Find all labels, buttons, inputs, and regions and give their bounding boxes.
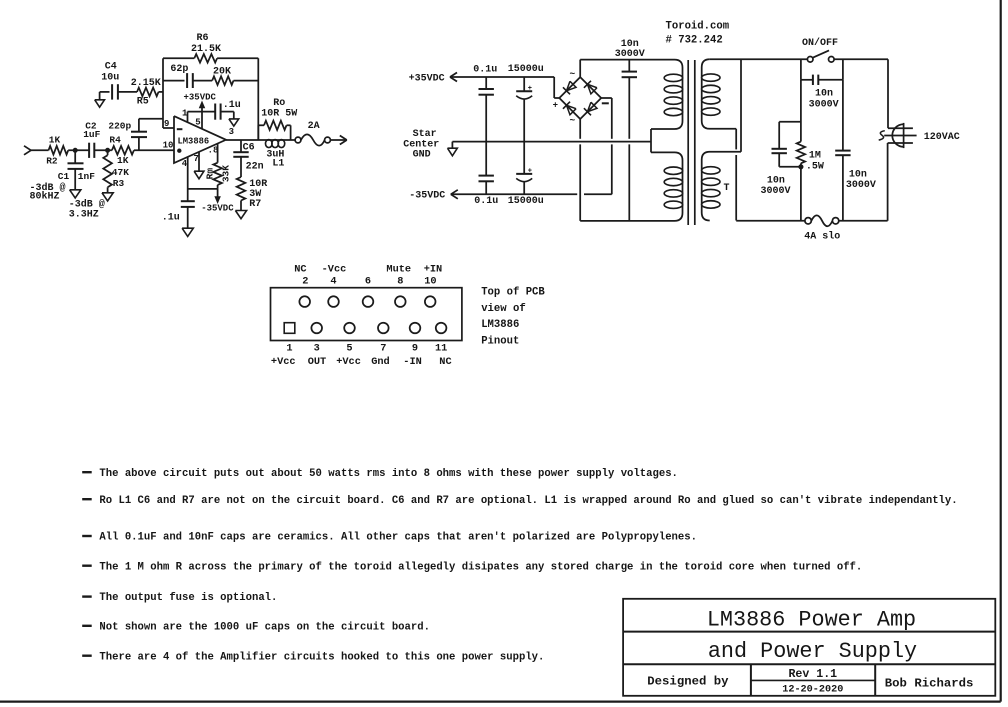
svg-text:Bob Richards: Bob Richards: [885, 676, 974, 690]
primary bottom wire to fuse: [736, 220, 805, 222]
svg-text:33K: 33K: [220, 165, 231, 182]
svg-text:15000u: 15000u: [508, 196, 544, 207]
svg-text:4A slo: 4A slo: [804, 231, 840, 243]
svg-text:1nF: 1nF: [78, 171, 95, 182]
-35VDC arrow at mute: [217, 189, 219, 197]
svg-text:LM3886 Power Amp: LM3886 Power Amp: [707, 607, 916, 632]
-35VDC rail wire with hop: [451, 193, 577, 195]
svg-text:62p: 62p: [170, 64, 188, 75]
bridge diode D3 top-right: [587, 84, 597, 94]
svg-text:1uF: 1uF: [83, 129, 100, 140]
svg-text:9: 9: [412, 343, 418, 355]
svg-text:1M: 1M: [809, 150, 821, 161]
note 6 dash: [82, 625, 92, 627]
+35VDC rail wire: [450, 76, 554, 78]
ground below R3: [102, 193, 113, 201]
primary top wire to switch: [710, 58, 808, 60]
capacitor 15000u lower: [523, 142, 525, 174]
svg-text:Mute: Mute: [386, 263, 411, 275]
svg-text:LM3886: LM3886: [178, 136, 210, 146]
output wire: [226, 139, 295, 141]
input terminal arrow: [24, 150, 31, 155]
svg-text:6: 6: [365, 276, 371, 288]
svg-text:1: 1: [286, 343, 292, 355]
svg-text:1K: 1K: [117, 155, 129, 166]
title block vertical dividers: [750, 664, 752, 696]
svg-text:+35VDC: +35VDC: [409, 73, 445, 84]
transformer core: [687, 60, 689, 225]
wire input to R2: [31, 149, 49, 151]
svg-text:Pinout: Pinout: [481, 335, 519, 347]
resistor Rm 33K: [213, 163, 222, 185]
svg-text:80kHZ: 80kHZ: [30, 191, 60, 203]
transformer primary upper winding: [702, 59, 737, 129]
svg-text:Gnd: Gnd: [371, 356, 390, 368]
+35VDC supply arrow: [201, 104, 203, 112]
GND rail wire: [452, 141, 651, 143]
pin 3 pad: [311, 323, 322, 334]
svg-text:10n: 10n: [815, 88, 833, 99]
note 2 dash: [82, 498, 92, 500]
svg-text:Ro: Ro: [273, 98, 285, 109]
capacitor .1u at V+: [214, 104, 216, 120]
note 5 dash: [82, 595, 92, 597]
svg-text:10: 10: [163, 141, 174, 151]
capacitor C2 1uF: [88, 143, 90, 158]
LM3886 pinout box: [271, 288, 462, 341]
node A junction dot: [73, 148, 77, 152]
ground below .1u: [182, 228, 193, 236]
capacitor C6 22n: [240, 140, 242, 152]
note 4 dash: [82, 565, 92, 567]
wire +35 rail to bridge + corner: [553, 77, 555, 98]
bridge diode D1 top-left: [566, 81, 576, 91]
svg-text:LM3886: LM3886: [481, 319, 519, 331]
page border bottom: [0, 700, 1001, 702]
title block middle divider: [751, 679, 875, 681]
vertical 1M branch wire: [800, 80, 802, 142]
svg-text:GND: GND: [413, 150, 431, 161]
svg-text:Rm: Rm: [204, 168, 215, 180]
svg-text:-Vcc: -Vcc: [322, 263, 347, 275]
svg-text:Top of PCB: Top of PCB: [481, 286, 545, 298]
svg-text:3000V: 3000V: [846, 180, 876, 191]
svg-text:Toroid.com: Toroid.com: [666, 21, 730, 33]
svg-text:0.1u: 0.1u: [473, 65, 497, 76]
svg-text:11: 11: [435, 343, 447, 355]
note 3 dash: [82, 535, 92, 537]
title block row line 1: [623, 631, 995, 633]
svg-text:The above circuit puts out abo: The above circuit puts out about 50 watt…: [99, 468, 678, 480]
svg-text:R7: R7: [249, 199, 261, 210]
capacitor C1 1nF: [74, 150, 76, 163]
ground at C4: [99, 92, 101, 100]
svg-text:120VAC: 120VAC: [924, 132, 960, 143]
junction dot below 1M: [799, 165, 803, 169]
svg-text:10R 5W: 10R 5W: [261, 109, 297, 120]
pin 5 stub and label: [201, 112, 203, 129]
AC plug 120VAC: [892, 124, 903, 147]
title block row line 2: [623, 663, 995, 665]
svg-text:5: 5: [195, 117, 200, 127]
svg-text:Rev 1.1: Rev 1.1: [788, 668, 837, 681]
pin 11 pad: [436, 323, 447, 334]
op-amp U1 LM3886 triangle: [174, 116, 226, 163]
primary parallel jumper with hop: [735, 129, 737, 150]
transformer secondary lower winding: [651, 152, 683, 221]
svg-text:C6: C6: [243, 143, 255, 154]
svg-text:3: 3: [229, 127, 234, 137]
pin 2 pad: [299, 296, 310, 307]
svg-text:R5: R5: [137, 96, 149, 107]
svg-text:Designed by: Designed by: [647, 674, 729, 688]
svg-text:220p: 220p: [108, 120, 131, 131]
svg-text:# 732.242: # 732.242: [666, 34, 723, 46]
long vertical top wire to lower primary: [740, 59, 742, 152]
svg-text:NC: NC: [294, 263, 306, 275]
wire fuse to right rail: [839, 220, 888, 222]
svg-text:R6: R6: [197, 33, 209, 44]
resistor R2 1K: [49, 146, 69, 155]
wire bridge top corner to secondary top: [579, 60, 581, 78]
svg-text:-35VDC: -35VDC: [409, 191, 445, 202]
svg-text:R4: R4: [109, 134, 121, 145]
wire R4 to op-amp pin 10: [134, 149, 174, 151]
svg-text:.8: .8: [208, 145, 219, 155]
pin 5 pad: [344, 323, 355, 334]
svg-text:1K: 1K: [49, 134, 61, 145]
pin 10 pad: [425, 296, 436, 307]
svg-text:The output fuse is optional.: The output fuse is optional.: [99, 592, 277, 604]
V+ supply wire pins 1,5: [188, 111, 216, 113]
wire bridge bottom corner down with hop: [579, 119, 581, 139]
svg-text:10: 10: [424, 276, 436, 288]
svg-text:22n: 22n: [246, 161, 264, 172]
pin 8 mute stub: [217, 144, 219, 163]
svg-text:3000V: 3000V: [809, 100, 839, 111]
wire bridge - corner to -35 rail: [601, 97, 612, 99]
wire switch to right rail: [834, 58, 888, 60]
svg-text:OUT: OUT: [308, 356, 327, 368]
pin 1 square pad: [284, 323, 295, 334]
capacitor 0.1u lower: [485, 142, 487, 176]
svg-text:7: 7: [194, 154, 199, 164]
pin 8 pad: [395, 296, 406, 307]
capacitor 220p across inputs: [138, 137, 140, 150]
svg-text:47K: 47K: [112, 167, 129, 178]
svg-text:1: 1: [182, 109, 188, 119]
bridge rectifier diamond: [559, 77, 580, 98]
pin 9 inverting input stub: [163, 127, 174, 129]
svg-text:ON/OFF: ON/OFF: [802, 37, 838, 49]
svg-text:view of: view of: [481, 303, 526, 315]
feedback top wire: [163, 57, 194, 59]
right rail to plug: [887, 59, 889, 128]
svg-text:5: 5: [346, 343, 352, 355]
transformer primary lower winding: [702, 152, 741, 221]
fuse 2A: [295, 137, 301, 143]
second feedback wire with 62p: [163, 80, 185, 82]
svg-text:4: 4: [330, 276, 336, 288]
svg-text:15000u: 15000u: [508, 64, 544, 75]
svg-text:4: 4: [182, 159, 188, 169]
svg-text:L1: L1: [272, 158, 284, 169]
+35VDC rail arrow: [450, 73, 457, 78]
capacitor .1u at V-: [181, 200, 195, 202]
resistor R3 47K: [107, 150, 109, 155]
capacitor 62p: [186, 73, 188, 88]
svg-text:3.3HZ: 3.3HZ: [69, 209, 99, 220]
node B junction dot: [106, 148, 110, 152]
ground at pin 7: [194, 171, 204, 179]
svg-text:3000V: 3000V: [761, 186, 791, 197]
svg-text:Not shown are the 1000 uF caps: Not shown are the 1000 uF caps on the ci…: [99, 621, 430, 633]
note 1 dash: [82, 471, 92, 473]
pin 7 stub: [198, 152, 200, 171]
svg-text:8: 8: [397, 276, 403, 288]
svg-text:.1u: .1u: [162, 212, 180, 223]
bridge diode D4 bottom-right: [587, 102, 597, 112]
capacitor 10n 3000V right: [842, 155, 844, 221]
pin 9 pad: [410, 323, 421, 334]
svg-text:21.5K: 21.5K: [191, 44, 221, 55]
svg-text:20K: 20K: [213, 67, 231, 78]
inductor L1 3uH: [266, 140, 273, 148]
svg-text:C1: C1: [58, 171, 70, 182]
svg-text:7: 7: [380, 343, 386, 355]
svg-text:C4: C4: [105, 61, 117, 72]
resistor 20K: [212, 76, 233, 85]
wire R2 to node A: [68, 149, 89, 151]
title block outer box: [623, 599, 995, 696]
svg-text:~: ~: [570, 115, 576, 126]
resistor R7 10R 3W: [237, 177, 246, 201]
svg-text:T: T: [724, 183, 730, 194]
output arrow: [330, 139, 345, 141]
pin 7 pad: [378, 323, 389, 334]
wire C4 to R5: [118, 91, 137, 93]
svg-text:3000V: 3000V: [615, 49, 645, 60]
svg-text:The 1 M ohm R across the prima: The 1 M ohm R across the primary of the …: [99, 561, 862, 573]
svg-text:There are 4 of the Amplifier c: There are 4 of the Amplifier circuits ho…: [99, 651, 544, 663]
svg-text:+: +: [553, 100, 558, 110]
svg-text:3: 3: [314, 343, 320, 355]
ground symbol at star center: [451, 142, 453, 149]
svg-text:and Power Supply: and Power Supply: [708, 639, 917, 664]
svg-text:All 0.1uF and 10nF caps are ce: All 0.1uF and 10nF caps are ceramics. Al…: [99, 532, 697, 544]
svg-text:~: ~: [570, 69, 576, 80]
resistor 1M .5W: [797, 142, 805, 164]
resistor R4 1K: [112, 146, 134, 155]
svg-text:+: +: [528, 167, 532, 175]
resistor R6 21.5K: [194, 54, 217, 63]
note 7 dash: [82, 655, 92, 657]
wire and ground at V+ bypass: [221, 111, 234, 113]
capacitor 10n 3000V parallel 1M: [779, 121, 801, 123]
svg-text:2A: 2A: [308, 121, 320, 132]
svg-text:9: 9: [164, 119, 169, 129]
svg-text:R3: R3: [113, 178, 125, 189]
svg-text:-IN: -IN: [403, 356, 422, 368]
secondary bottom wire: [580, 220, 674, 222]
svg-text:+Vcc: +Vcc: [271, 356, 296, 368]
transformer secondary upper winding: [651, 60, 683, 129]
pin 1 stub and label: [187, 112, 189, 123]
svg-text:+35VDC: +35VDC: [184, 93, 217, 103]
wire 1M branch to bottom wire: [800, 163, 802, 221]
switch ON/OFF: [807, 57, 813, 63]
resistor R5 2.15K: [137, 88, 159, 97]
-35VDC rail arrow: [451, 190, 458, 195]
transformer center tap: [650, 129, 652, 152]
capacitor C4 10u: [100, 91, 110, 93]
svg-text:2.15K: 2.15K: [131, 78, 161, 89]
svg-text:Ro L1 C6 and R7 are not on the: Ro L1 C6 and R7 are not on the circuit b…: [99, 495, 957, 507]
svg-text:2: 2: [302, 276, 308, 288]
ground below R7: [235, 211, 246, 219]
fuse 4A slo: [805, 218, 811, 224]
svg-text:+Vcc: +Vcc: [336, 356, 361, 368]
svg-text:+: +: [528, 85, 532, 93]
svg-text:R2: R2: [46, 155, 58, 166]
wire Rm to pin4 line: [217, 185, 219, 189]
svg-text:.1u: .1u: [223, 100, 241, 111]
svg-text:Star: Star: [413, 129, 437, 140]
capacitor 10n 3000V across switch: [800, 59, 802, 80]
feedback left vertical to pin 9: [162, 58, 164, 128]
bridge diode D2 bottom-left: [566, 105, 576, 115]
svg-text:12-20-2020: 12-20-2020: [782, 684, 843, 695]
page border right: [1000, 0, 1002, 702]
resistor Ro 10R 5W branch: [257, 125, 259, 140]
svg-text:10u: 10u: [101, 72, 119, 83]
wire C2 to node B: [94, 149, 112, 151]
svg-text:10n: 10n: [849, 169, 867, 180]
pin 4 pad: [328, 296, 339, 307]
pin 4 stub: [187, 157, 189, 201]
svg-text:0.1u: 0.1u: [474, 196, 498, 207]
pin 6 pad: [363, 296, 374, 307]
svg-text:NC: NC: [439, 356, 451, 368]
wire R6 to right vertical: [217, 57, 258, 59]
svg-text:+IN: +IN: [424, 263, 443, 275]
svg-text:-35VDC: -35VDC: [201, 204, 234, 214]
feedback right vertical to output: [257, 58, 259, 140]
svg-text:.5W: .5W: [806, 161, 824, 172]
ground below C1: [70, 190, 81, 198]
